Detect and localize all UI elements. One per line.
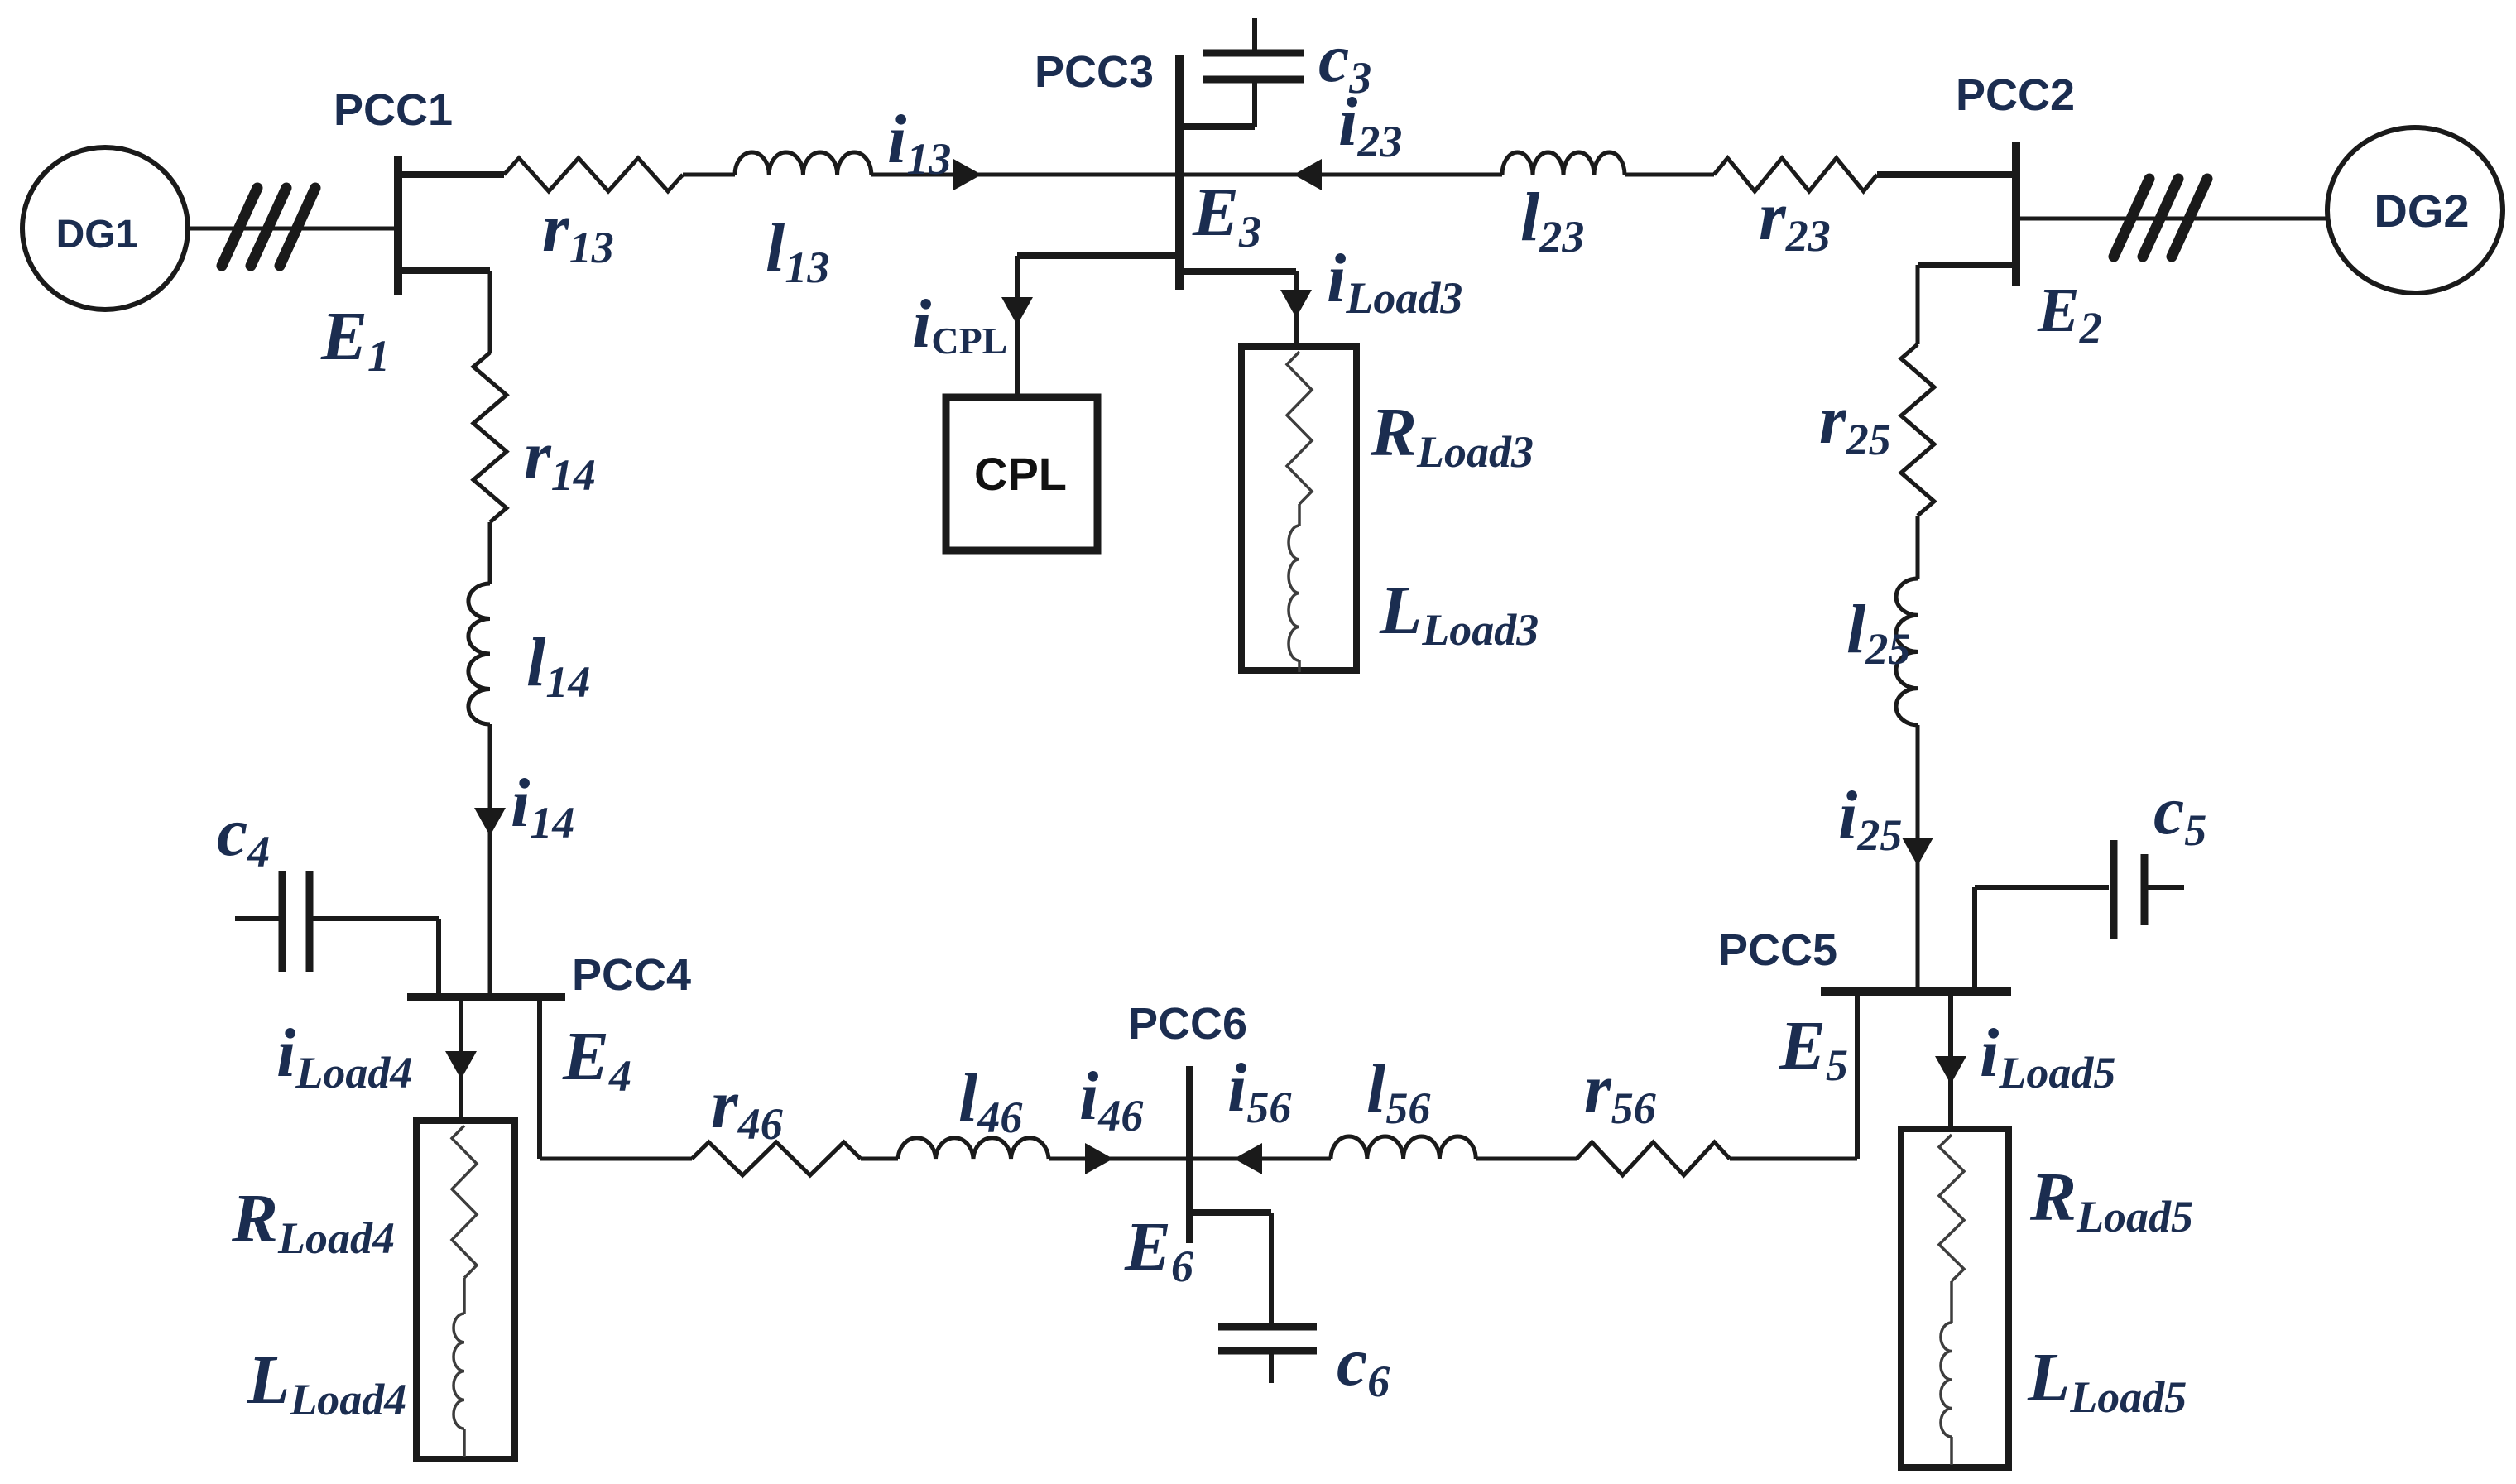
svg-text:PCC3: PCC3	[1035, 47, 1154, 97]
svg-text:PCC6: PCC6	[1128, 999, 1247, 1049]
svg-text:PCC2: PCC2	[1956, 70, 2075, 120]
svg-text:DG2: DG2	[2374, 185, 2469, 237]
svg-text:PCC1: PCC1	[334, 85, 453, 135]
svg-text:PCC4: PCC4	[572, 950, 691, 1000]
svg-text:DG1: DG1	[56, 213, 138, 257]
svg-text:PCC5: PCC5	[1718, 925, 1837, 975]
svg-text:CPL: CPL	[974, 448, 1067, 500]
